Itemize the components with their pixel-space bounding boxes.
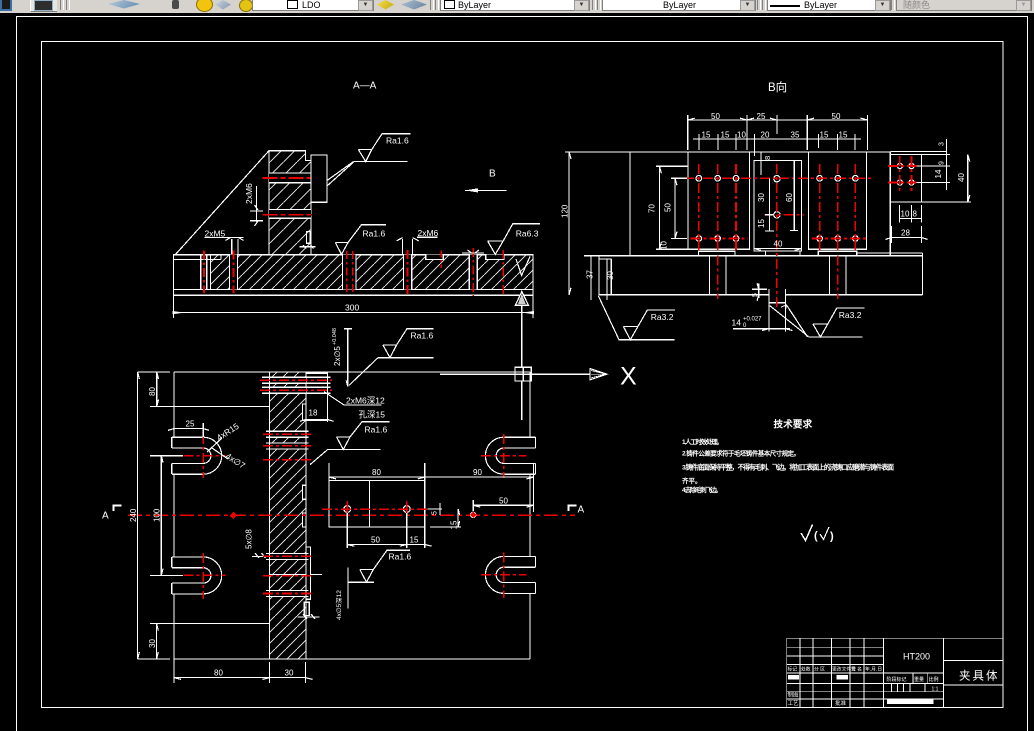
svg-text:2xM6: 2xM6 bbox=[418, 228, 439, 238]
header tiny texts bbox=[788, 666, 883, 707]
svg-text:15: 15 bbox=[702, 131, 711, 140]
step detail ticks bbox=[299, 245, 315, 249]
dim 100 bbox=[150, 456, 183, 576]
svg-text:A: A bbox=[102, 511, 109, 522]
small pad dim 28 bbox=[885, 226, 927, 243]
dim 15 rotated right of rect bbox=[430, 509, 461, 527]
svg-text:15: 15 bbox=[839, 131, 848, 140]
dim 80 top-left bbox=[150, 372, 174, 407]
Ra6.3 symbol (on notch) bbox=[488, 224, 540, 255]
svg-text:Ra3.2: Ra3.2 bbox=[839, 310, 862, 320]
svg-text:(: ( bbox=[814, 530, 818, 542]
svg-text:Ra1.6: Ra1.6 bbox=[365, 424, 388, 434]
lower slot red lines bbox=[263, 556, 312, 593]
mid slot red lines bbox=[263, 434, 311, 460]
svg-text:25: 25 bbox=[186, 420, 195, 429]
base left end bbox=[599, 256, 611, 295]
right pad holes row2 bbox=[817, 236, 823, 242]
band notch 1 bbox=[303, 404, 307, 420]
dim 30 15 middle bbox=[765, 179, 774, 231]
section line from datum down to UCS bbox=[521, 305, 523, 367]
svg-text:50: 50 bbox=[832, 112, 841, 121]
small check at plate right end bbox=[516, 257, 530, 276]
hole near 473 backing bbox=[469, 255, 477, 290]
svg-text:20: 20 bbox=[761, 131, 770, 140]
svg-text:80: 80 bbox=[372, 468, 381, 477]
dim 70 left pad bbox=[656, 166, 688, 249]
svg-text:Ra1.6: Ra1.6 bbox=[389, 552, 412, 562]
svg-text:5x∅8: 5x∅8 bbox=[245, 529, 254, 549]
svg-text:35: 35 bbox=[791, 131, 800, 140]
svg-text:2xM6深12: 2xM6深12 bbox=[346, 396, 385, 406]
outline top edge bbox=[174, 371, 530, 373]
svg-text:10: 10 bbox=[901, 210, 910, 219]
small pad dims 10 8 bbox=[899, 205, 921, 223]
svg-text:3: 3 bbox=[939, 142, 946, 146]
dim 300 line bbox=[174, 312, 534, 314]
dim 80 bottom bbox=[174, 659, 269, 683]
right slot lower red cross bbox=[481, 553, 526, 598]
band notch 2 bbox=[303, 485, 307, 499]
B view arrow bbox=[465, 189, 507, 191]
small step detail right of tower bbox=[307, 232, 311, 244]
small pad holes bbox=[897, 163, 902, 168]
svg-text:1:1: 1:1 bbox=[932, 686, 939, 692]
dim 40 middle pad bbox=[754, 248, 802, 250]
tower column hatched bbox=[269, 151, 311, 255]
left grid verticals bbox=[800, 638, 883, 707]
svg-text:阶段标记: 阶段标记 bbox=[887, 676, 907, 683]
slot end caps left bbox=[171, 437, 173, 594]
section marker A right bbox=[569, 506, 577, 512]
red centerline tapped hole bbox=[406, 250, 408, 295]
red centerline hole M5 #1 bbox=[203, 251, 205, 293]
svg-text:5: 5 bbox=[752, 293, 759, 297]
base slab bottom line (interrupted by tongue) bbox=[599, 294, 922, 296]
svg-text:80: 80 bbox=[214, 669, 223, 678]
2xM6 extension lines bbox=[397, 238, 419, 254]
svg-text:4.去除毛刺飞边。: 4.去除毛刺飞边。 bbox=[682, 485, 722, 494]
svg-text:): ) bbox=[830, 531, 834, 543]
svg-text:齐平。: 齐平。 bbox=[682, 476, 702, 485]
Ra1.6 mid-left symbol bbox=[328, 422, 390, 450]
svg-text:4x∅7: 4x∅7 bbox=[224, 451, 247, 471]
svg-text:标记: 标记 bbox=[788, 666, 798, 673]
left slot lower arcs bbox=[203, 557, 221, 594]
red centerline hole M5 #2 bbox=[233, 251, 235, 293]
dim 30 bottom-left bbox=[150, 623, 174, 659]
dim 240 bbox=[138, 372, 170, 659]
svg-text:10: 10 bbox=[660, 241, 669, 250]
svg-text:15: 15 bbox=[450, 520, 459, 529]
middle pad holes bbox=[774, 176, 780, 182]
tongue under base center bbox=[769, 289, 786, 303]
mid slot group black bands bbox=[270, 431, 306, 437]
svg-text:18: 18 bbox=[309, 409, 318, 418]
tower slot 1 bbox=[269, 173, 311, 183]
middle/right verticals bbox=[913, 638, 944, 707]
outline right edge (interrupted at slots) bbox=[529, 372, 531, 659]
tab under right pad bbox=[818, 251, 857, 256]
svg-text:14: 14 bbox=[934, 169, 943, 178]
red horizontal middle hole2 bbox=[765, 214, 804, 216]
red vertical left pad center long bbox=[717, 164, 719, 299]
svg-text:90: 90 bbox=[473, 468, 482, 477]
right pad holes row1 bbox=[817, 176, 823, 182]
slot end caps right bbox=[535, 437, 537, 593]
small pad top extension bbox=[890, 150, 946, 152]
svg-text:Ra6.3: Ra6.3 bbox=[516, 229, 539, 239]
dim 5 tongue bbox=[752, 283, 767, 301]
right boss outline bbox=[311, 155, 327, 202]
gusset diagonal bbox=[176, 151, 269, 255]
svg-text:工艺: 工艺 bbox=[788, 700, 800, 707]
dim 5 small bbox=[428, 503, 442, 515]
svg-text:B向: B向 bbox=[768, 80, 787, 94]
X axis open arrowhead bbox=[590, 369, 607, 380]
label 5x8 left of band bbox=[252, 553, 266, 558]
left slot upper red cross bbox=[184, 434, 226, 478]
center rect divider bbox=[369, 481, 371, 527]
dim row1 line bbox=[688, 119, 868, 121]
svg-text:30: 30 bbox=[757, 193, 766, 202]
outline left edge (interrupted at slots) bbox=[173, 372, 175, 659]
tower slot 1 red centerline bbox=[263, 177, 314, 179]
slot in base under left pad bbox=[710, 256, 727, 295]
small pad dims 3 9 14 bbox=[916, 139, 950, 190]
dim row1 extensions bbox=[688, 115, 868, 150]
svg-text:50: 50 bbox=[371, 535, 380, 544]
red verticals left pad bbox=[699, 164, 736, 250]
short red line in notch bbox=[440, 251, 442, 269]
svg-text:100: 100 bbox=[153, 508, 162, 522]
svg-text:重量: 重量 bbox=[914, 676, 924, 683]
right slot lower: walls bbox=[504, 556, 536, 593]
hole M5 #2 black backing bbox=[230, 255, 238, 290]
dim 60 middle bbox=[790, 161, 798, 231]
dim 120 left bbox=[565, 152, 630, 295]
lower slot boundary lines bbox=[266, 553, 309, 596]
CAD application toolbar (cut off at top) bbox=[0, 0, 1034, 13]
svg-text:2x∅5: 2x∅5 bbox=[333, 346, 342, 366]
dim 8 middle pad top bbox=[757, 152, 769, 175]
svg-text:制图: 制图 bbox=[788, 691, 800, 699]
mid slot boundary lines bbox=[266, 431, 309, 449]
leader lines from boss to Ra1.6 bbox=[327, 162, 354, 186]
svg-text:HT200: HT200 bbox=[903, 652, 930, 662]
svg-text:Ra1.6: Ra1.6 bbox=[363, 229, 386, 239]
detail rect leader ticks bbox=[298, 614, 320, 619]
dim 300 extension lines bbox=[174, 295, 534, 318]
all-over roughness mark bbox=[801, 525, 813, 541]
svg-text:批准: 批准 bbox=[835, 699, 847, 707]
center rect holes bbox=[344, 506, 351, 513]
left slot lower: walls bbox=[172, 557, 203, 594]
svg-text:年.月.日: 年.月.日 bbox=[865, 666, 882, 673]
dim 37 / 30 left of base bbox=[584, 256, 611, 300]
right slot upper arcs bbox=[485, 437, 503, 474]
svg-text:15: 15 bbox=[757, 219, 766, 228]
svg-text:4x∅5深12: 4x∅5深12 bbox=[334, 590, 343, 620]
lone hole right bbox=[471, 512, 476, 517]
Ra1.6 lower symbol bbox=[348, 550, 410, 582]
Ra3.2 right symbol with leaders from tongue bbox=[770, 305, 809, 337]
red horizontal row1 bbox=[684, 177, 872, 179]
svg-text:孔深15: 孔深15 bbox=[359, 410, 386, 420]
small feature ticks near 473 bbox=[462, 250, 484, 253]
Ra1.6 symbol top (on leader) bbox=[354, 134, 411, 162]
svg-text:Ra3.2: Ra3.2 bbox=[651, 312, 674, 322]
svg-text:120: 120 bbox=[561, 204, 570, 218]
left slot upper arcs bbox=[203, 437, 222, 474]
left pad holes row2 bbox=[696, 236, 702, 242]
svg-text:A: A bbox=[578, 505, 585, 516]
red vertical ticks at holes bbox=[347, 501, 407, 517]
right slot lower arcs bbox=[485, 556, 503, 593]
red vertical right pad center long bbox=[837, 164, 839, 299]
svg-text:比例: 比例 bbox=[929, 676, 939, 683]
svg-text:60: 60 bbox=[785, 193, 794, 202]
red lines slot pair bbox=[347, 251, 353, 293]
Ra1.6 top symbol bbox=[378, 329, 433, 358]
svg-text:5: 5 bbox=[432, 511, 439, 515]
red verticals right pad bbox=[820, 164, 856, 250]
ucs vertical line below square bbox=[521, 381, 523, 420]
red centerline hole 503 bbox=[502, 250, 504, 296]
ucs horizontal axis line bbox=[440, 373, 590, 375]
internal step line bottom-left bbox=[174, 622, 269, 624]
svg-text:14: 14 bbox=[732, 318, 742, 328]
svg-text:300: 300 bbox=[345, 303, 359, 313]
main horizontal centerline bbox=[128, 514, 575, 516]
svg-text:B: B bbox=[489, 169, 496, 180]
tapped hole mid backing bbox=[403, 255, 411, 290]
extension line right of strip bbox=[311, 574, 322, 576]
svg-text:15: 15 bbox=[410, 535, 419, 544]
svg-text:+0.048: +0.048 bbox=[332, 328, 338, 345]
svg-text:37: 37 bbox=[586, 270, 595, 279]
svg-text:30: 30 bbox=[148, 639, 157, 648]
svg-text:2.铸件公差要求符于毛坯铸件基本尺寸规定。: 2.铸件公差要求符于毛坯铸件基本尺寸规定。 bbox=[682, 449, 800, 458]
dim row2 extensions bbox=[699, 134, 855, 156]
dim 50 hole rows bbox=[671, 178, 687, 238]
left slot lower red cross bbox=[184, 553, 226, 599]
right slot upper red cross bbox=[481, 434, 526, 478]
ucs square with cross bbox=[515, 367, 531, 381]
svg-text:4xR15: 4xR15 bbox=[215, 421, 241, 443]
red horizontal row2 right bbox=[812, 238, 866, 240]
dim 18 bbox=[300, 404, 334, 422]
svg-text:3.铸件底面保持平整，不得有毛刺、飞边。将加工表面上的浇铸口: 3.铸件底面保持平整，不得有毛刺、飞边。将加工表面上的浇铸口应磨潜与铸件表面 bbox=[682, 463, 894, 472]
dim 50 right bbox=[473, 500, 533, 511]
red small pad crosshairs bbox=[888, 156, 917, 192]
svg-text:40: 40 bbox=[774, 240, 783, 249]
svg-text:30: 30 bbox=[285, 669, 294, 678]
white redaction bars bbox=[788, 675, 799, 680]
hole pair M5 left: wall lines bbox=[201, 255, 207, 290]
band right protruding strip bbox=[306, 547, 311, 599]
svg-text:15: 15 bbox=[820, 131, 829, 140]
dim 25 bbox=[168, 423, 209, 437]
top slot red lines bbox=[260, 380, 332, 390]
tower slot 2 red centerline bbox=[263, 214, 314, 216]
tab under middle pad bbox=[766, 251, 800, 256]
svg-text:70: 70 bbox=[648, 204, 657, 213]
dim 14 tolerance bbox=[733, 303, 792, 332]
hatched rib band bbox=[269, 372, 306, 659]
step line at plate left top bbox=[174, 255, 222, 260]
small right pad bbox=[891, 155, 922, 203]
svg-text:Ra1.6: Ra1.6 bbox=[411, 330, 434, 340]
red line through holes bbox=[322, 508, 428, 510]
datum arrow under plate bbox=[515, 292, 528, 306]
small pad dim 40 bbox=[922, 155, 971, 203]
Ra1.6 symbol mid (on plate top) bbox=[335, 225, 386, 255]
top slot pair black band bbox=[270, 377, 306, 383]
dim 15 bbox=[407, 527, 432, 548]
svg-text:10: 10 bbox=[737, 131, 746, 140]
dim 90 bbox=[425, 463, 534, 512]
base right end bbox=[857, 253, 923, 295]
2xM5 extension lines and ticks bbox=[226, 238, 244, 255]
body outline bbox=[630, 152, 890, 256]
right slot upper: walls bbox=[504, 437, 536, 474]
dim 50 bottom of holes bbox=[347, 513, 407, 548]
base plate left unhatched foot bbox=[174, 255, 211, 290]
base plate bottom strip bbox=[174, 290, 534, 296]
dim 80 center bbox=[329, 463, 425, 480]
outline bottom edge bbox=[174, 658, 530, 660]
svg-text:8: 8 bbox=[763, 156, 772, 160]
svg-text:分 区: 分 区 bbox=[814, 666, 825, 673]
middle header labels bbox=[887, 676, 939, 693]
top slot boundary lines bbox=[262, 377, 331, 393]
red centerlines bbox=[684, 156, 916, 308]
dim row2 line bbox=[693, 138, 861, 140]
svg-text:2xM5: 2xM5 bbox=[205, 228, 226, 238]
svg-text:技术要求: 技术要求 bbox=[774, 419, 813, 431]
svg-text:30: 30 bbox=[606, 271, 615, 280]
slot in base under right pad bbox=[830, 256, 847, 295]
center rectangle feature bbox=[329, 481, 425, 527]
internal step line top-left bbox=[174, 406, 269, 408]
tab under left pad bbox=[698, 251, 735, 256]
dim 30 bottom bbox=[269, 662, 312, 683]
middle pad bbox=[754, 161, 802, 251]
svg-text:夹具体: 夹具体 bbox=[959, 669, 1000, 683]
title block outline bbox=[787, 638, 1003, 707]
svg-text:25: 25 bbox=[757, 112, 766, 121]
small cells row bbox=[892, 684, 926, 692]
notch on plate top (left of Ra6.3) bbox=[426, 255, 443, 260]
left grid horizontals bbox=[787, 647, 944, 699]
top boss right of band bbox=[306, 373, 328, 420]
lower slot group black bands bbox=[270, 553, 306, 559]
svg-text:1.人工时效处理。: 1.人工时效处理。 bbox=[682, 437, 723, 446]
base plate hatched body bbox=[211, 255, 534, 290]
svg-text:40: 40 bbox=[957, 173, 966, 182]
right column horizontals bbox=[944, 661, 1004, 685]
tower slot 2 bbox=[269, 209, 311, 218]
Ra3.2 left symbol bbox=[598, 296, 675, 340]
svg-text:50: 50 bbox=[664, 203, 673, 212]
svg-text:15: 15 bbox=[721, 131, 730, 140]
svg-text:签 名: 签 名 bbox=[851, 666, 862, 673]
white feature line at lower keyhole centerline bbox=[269, 574, 306, 576]
svg-text:2xM6: 2xM6 bbox=[244, 183, 254, 204]
notch on plate top (under Ra6.3) bbox=[486, 255, 504, 260]
dim row1 arrows bbox=[688, 118, 868, 120]
svg-text:X: X bbox=[620, 363, 637, 391]
red scatter marker left bbox=[230, 512, 237, 519]
left pad bbox=[688, 152, 750, 249]
svg-text:Ra1.6: Ra1.6 bbox=[386, 135, 409, 145]
svg-text:50: 50 bbox=[499, 496, 508, 505]
right pad bbox=[809, 152, 867, 249]
left slot upper: walls bbox=[172, 437, 203, 474]
svg-text:A—A: A—A bbox=[353, 81, 377, 92]
red vertical middle long bbox=[776, 164, 778, 308]
2xM6 dim bracket bbox=[250, 186, 263, 226]
base slab top line bbox=[599, 255, 922, 257]
svg-text:80: 80 bbox=[148, 387, 157, 396]
svg-text:+0.027: +0.027 bbox=[743, 317, 762, 323]
svg-text:28: 28 bbox=[901, 229, 910, 238]
small detail rect on band right edge bbox=[304, 602, 309, 615]
svg-text:50: 50 bbox=[711, 112, 720, 121]
left pad holes row1 bbox=[696, 176, 702, 182]
red horizontal row2 left bbox=[691, 238, 748, 240]
slot pair feature mid-plate bbox=[343, 255, 357, 290]
svg-text:8: 8 bbox=[913, 210, 918, 219]
svg-text:处数: 处数 bbox=[801, 666, 811, 673]
band notch 3 bbox=[303, 513, 307, 527]
svg-text:9: 9 bbox=[939, 161, 946, 165]
red centerline hole 473 bbox=[472, 248, 474, 296]
svg-text:240: 240 bbox=[129, 508, 138, 522]
